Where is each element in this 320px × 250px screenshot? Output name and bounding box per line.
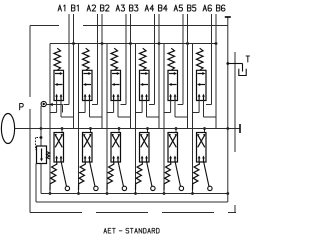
port label B3	[128, 5, 130, 11]
port label T	[246, 55, 249, 57]
lever section 2	[90, 162, 95, 187]
arrow position 1 section 4	[141, 73, 147, 75]
wire A1 port stub	[64, 104, 70, 106]
wire top gallery rail	[50, 43, 216, 45]
lever knob section 4	[151, 186, 155, 190]
enclosure border right	[234, 52, 236, 152]
crossover box section 5	[168, 133, 178, 163]
crossover box section 2	[83, 133, 93, 163]
wire T branch	[228, 63, 243, 65]
wire section 6 envelope line	[192, 44, 194, 194]
node P rail tank line crossing	[226, 127, 229, 130]
node bottom rail junction section 3	[106, 192, 109, 195]
check valve CV1	[41, 101, 46, 106]
port label B5	[186, 5, 188, 11]
spring top section 3	[111, 48, 118, 70]
wire section 3 port drop left	[113, 101, 115, 113]
wire work port line B3	[130, 14, 132, 129]
spring bottom section 4	[136, 162, 143, 190]
node top rail junction B2	[101, 42, 104, 45]
spring bottom section 1	[50, 162, 57, 190]
crossed arrows section 3	[112, 135, 119, 148]
spool valve box section 1	[54, 70, 64, 100]
wire work port line A2	[97, 14, 99, 105]
arrow stubs position 3 section 6	[198, 96, 200, 101]
crossed arrows section 1	[55, 135, 62, 148]
port label B6	[215, 5, 217, 11]
node top rail junction B1	[72, 42, 75, 45]
wire section 6 feed stub	[204, 129, 206, 133]
spring bottom section 2	[79, 162, 86, 190]
crossover box section 3	[111, 133, 121, 163]
wire P gallery rail	[41, 128, 240, 130]
wire section 5 port drop right	[174, 101, 176, 118]
arrow stubs lower cell section 4	[141, 158, 143, 162]
arrow stubs lower cell section 5	[170, 158, 172, 162]
enclosure border bottom	[30, 212, 236, 214]
wire section 1 envelope line	[49, 44, 51, 194]
wire work port line A5	[182, 14, 184, 105]
pump port P ellipse	[1, 114, 14, 144]
wire relief tank branch	[35, 164, 37, 203]
node tank branch junction	[226, 62, 229, 65]
wire section 6 port drop left	[198, 101, 200, 113]
lever section 4	[147, 162, 152, 187]
wire A6 port stub	[206, 104, 212, 106]
arrow position 2 section 2	[85, 84, 91, 86]
arrow position 1 section 1	[55, 73, 61, 75]
node bottom rail junction section 4	[134, 192, 137, 195]
port label A5	[174, 5, 177, 11]
arrow stubs lower cell section 6	[198, 158, 200, 162]
wire relief valve riser	[40, 129, 42, 147]
port label P	[20, 104, 24, 110]
tank symbol	[239, 69, 246, 76]
carryover plug crossbar	[225, 16, 231, 18]
lever knob section 1	[65, 186, 69, 190]
arrow feed direction	[49, 103, 53, 106]
wire riser to check valve	[40, 106, 42, 129]
wire section 3 envelope line	[106, 44, 108, 194]
port label A3	[116, 5, 119, 11]
arrow position 1 section 3	[112, 73, 118, 75]
wire section 5 feed stub	[175, 129, 177, 133]
arrow stubs lower cell section 1	[56, 158, 58, 162]
relief valve spring	[47, 152, 50, 160]
wire section 4 port drop left	[141, 101, 143, 113]
arrow stubs position 3 section 1	[56, 96, 58, 101]
wire relief valve outlet	[40, 164, 42, 194]
wire section 3 port drop right	[117, 101, 119, 118]
lever section 6	[204, 162, 209, 187]
wire section 3 feed stub	[118, 129, 120, 133]
port label A4	[145, 5, 148, 11]
node relief pilot junction	[40, 136, 43, 139]
wire section 1 feed stub	[61, 129, 63, 133]
lever knob section 3	[122, 186, 126, 190]
arrow stubs position 3 section 2	[84, 96, 86, 101]
node top rail junction B6	[215, 42, 218, 45]
node P rail junction section 2	[89, 127, 92, 130]
crossed arrows section 4	[141, 135, 148, 148]
arrow position 2 section 4	[142, 84, 148, 86]
wire P inlet	[15, 128, 41, 130]
node top rail junction B4	[158, 42, 161, 45]
wire work port line B5	[187, 14, 189, 129]
lever knob section 5	[179, 186, 183, 190]
crossover box section 6	[197, 133, 207, 163]
lever knob section 6	[208, 186, 212, 190]
spring top section 6	[197, 48, 204, 70]
node top rail junction B5	[186, 42, 189, 45]
wire bottom return rail	[41, 193, 228, 195]
spool valve box section 6	[197, 70, 207, 100]
arrow stubs position 3 section 4	[141, 96, 143, 101]
arrow position 2 section 1	[56, 84, 62, 86]
spring top section 4	[140, 48, 147, 70]
wire work port line B6	[215, 14, 217, 129]
wire tank return line	[227, 18, 229, 194]
spool valve box section 5	[168, 70, 178, 100]
relief valve pilot line	[36, 137, 42, 139]
wire A5 port stub	[178, 104, 184, 106]
wire section 5 envelope line	[163, 44, 165, 194]
arrow position 2 section 6	[199, 84, 205, 86]
wire section 4 port drop right	[146, 101, 148, 118]
wire work port line A4	[154, 14, 156, 105]
wire section 2 port drop left	[84, 101, 86, 113]
lever section 1	[61, 162, 66, 187]
wire A4 port stub	[149, 104, 155, 106]
node P rail junction section 3	[118, 127, 121, 130]
wire section 4 envelope line	[135, 44, 137, 194]
carryover port crossbar right	[239, 124, 241, 133]
wire work port line B2	[101, 14, 103, 129]
crossover box section 1	[54, 133, 64, 163]
wire section 5 port drop left	[170, 101, 172, 113]
wire A2 port stub	[92, 104, 98, 106]
node bottom rail right	[226, 192, 229, 195]
wire section 2 envelope line	[78, 44, 80, 194]
arrow stubs lower cell section 3	[113, 158, 115, 162]
wire section 1 port drop right	[60, 101, 62, 118]
port label B4	[157, 5, 159, 11]
wire section 6 port drop right	[203, 101, 205, 118]
port label A6	[203, 5, 206, 11]
arrow position 1 section 6	[198, 73, 204, 75]
lever section 3	[118, 162, 123, 187]
spool valve box section 2	[83, 70, 93, 100]
port label A1	[58, 5, 61, 11]
node bottom rail junction section 1	[49, 192, 52, 195]
spring bottom section 6	[193, 162, 200, 190]
crossed arrows section 5	[169, 135, 176, 148]
node bottom rail junction section 2	[77, 192, 80, 195]
port label A2	[87, 5, 90, 11]
arrow stubs position 3 section 5	[170, 96, 172, 101]
wire work port line B4	[158, 14, 160, 129]
spring top section 1	[54, 48, 61, 70]
relief valve arrow	[41, 149, 43, 160]
enclosure border top	[30, 25, 59, 27]
node P rail junction section 1	[61, 127, 64, 130]
node bottom rail junction section 6	[191, 192, 194, 195]
crossover box section 4	[140, 133, 150, 163]
node top rail junction B3	[129, 42, 132, 45]
wire work port line A3	[125, 14, 127, 105]
arrow position 2 section 3	[113, 84, 119, 86]
wire section 2 feed stub	[90, 129, 92, 133]
crossed arrows section 6	[198, 135, 205, 148]
port label B1	[70, 5, 72, 11]
spool valve box section 4	[140, 70, 150, 100]
node P rail junction section 5	[175, 127, 178, 130]
spool valve box section 3	[111, 70, 121, 100]
node bottom rail junction section 5	[163, 192, 166, 195]
wire check valve to section feed	[46, 104, 62, 106]
node P rail junction section 6	[203, 127, 206, 130]
wire section 1 port drop left	[56, 101, 58, 113]
spring bottom section 5	[164, 162, 171, 190]
arrow stubs position 3 section 3	[113, 96, 115, 101]
spring bottom section 3	[107, 162, 114, 190]
wire work port line B1	[73, 14, 75, 129]
wire tank loop bottom	[36, 201, 228, 203]
wire work port line A6	[211, 14, 213, 105]
relief valve RV1 body	[37, 146, 47, 164]
arrow stubs lower cell section 2	[84, 158, 86, 162]
wire section 2 port drop right	[89, 101, 91, 118]
enclosure border left	[29, 26, 31, 98]
arrow position 1 section 2	[84, 73, 90, 75]
spring top section 5	[168, 48, 175, 70]
wire A3 port stub	[121, 104, 127, 106]
wire work port line A1	[68, 14, 70, 105]
wire section 4 feed stub	[147, 129, 149, 133]
lever knob section 2	[94, 186, 98, 190]
node P inlet junction	[40, 127, 43, 130]
node P rail junction section 4	[146, 127, 149, 130]
lever section 5	[175, 162, 180, 187]
crossed arrows section 2	[84, 135, 91, 148]
port label B2	[99, 5, 101, 11]
spring top section 2	[83, 48, 90, 70]
arrow position 1 section 5	[169, 73, 175, 75]
arrow position 2 section 5	[170, 84, 176, 86]
title text AET-STANDARD	[104, 228, 107, 233]
